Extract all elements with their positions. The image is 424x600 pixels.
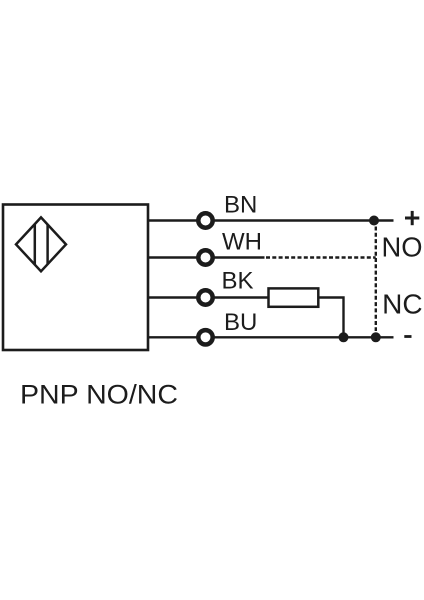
svg-text:NC: NC — [382, 289, 423, 320]
wire WH dashed to NO node — [266, 256, 376, 258]
sensor symbol diamond — [16, 217, 66, 271]
wire WH solid — [213, 256, 265, 258]
svg-text:NO: NO — [382, 232, 423, 263]
svg-text:BU: BU — [224, 309, 257, 336]
diamond inner left line — [34, 224, 37, 265]
sensor body box — [3, 205, 148, 351]
svg-text:PNP NO/NC: PNP NO/NC — [20, 378, 178, 409]
junction dot BK-BU — [339, 332, 349, 342]
plus terminal — [405, 211, 419, 225]
wire from resistor — [318, 298, 343, 338]
wire BU to minus — [213, 336, 394, 338]
wire BN from box — [147, 219, 198, 221]
wire BK to resistor — [213, 296, 269, 298]
wire WH from box — [147, 256, 198, 258]
wire BK from box — [147, 296, 198, 298]
wire BU from box — [147, 336, 198, 338]
dashed link NO-NC — [375, 227, 377, 332]
terminal circle WH — [198, 250, 212, 264]
junction dot BU — [371, 332, 381, 342]
svg-text:BK: BK — [222, 267, 254, 294]
wire BN to plus — [213, 219, 394, 221]
terminal circle BU — [198, 330, 212, 344]
minus terminal — [404, 335, 411, 338]
junction dot BN — [369, 216, 379, 226]
terminal circle BK — [198, 290, 212, 304]
svg-text:WH: WH — [222, 229, 262, 256]
svg-text:BN: BN — [224, 192, 257, 219]
diamond inner right line — [46, 225, 49, 265]
terminal circle BN — [198, 213, 212, 227]
resistor (load) — [269, 288, 319, 306]
